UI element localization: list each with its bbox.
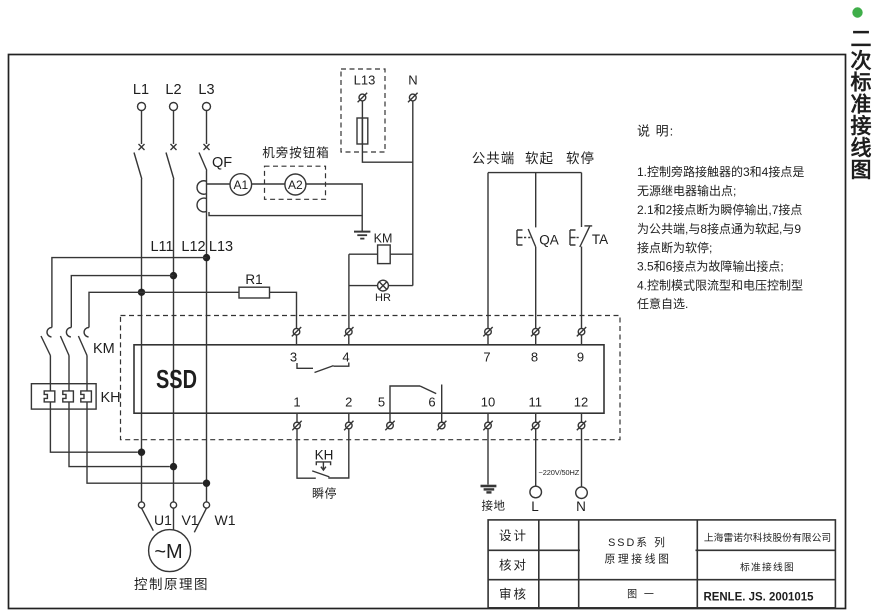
- svg-text:N: N: [408, 73, 417, 88]
- pushbutton KH actuator: [316, 462, 330, 470]
- svg-text:W1: W1: [215, 512, 236, 528]
- wire U1 to motor: [142, 508, 154, 531]
- wire terminal 11 to L: [535, 429, 537, 486]
- terminal circle L3: [203, 103, 211, 111]
- ground (terminal 10 earth): [481, 486, 497, 492]
- relay contact 3-4: [297, 363, 349, 373]
- wire terminal 10 to earth: [487, 429, 489, 485]
- terminal 4 slash circle: [344, 327, 353, 345]
- wire phase3 vertical: [206, 171, 208, 502]
- svg-text:U1: U1: [154, 512, 172, 528]
- svg-text:1: 1: [293, 395, 300, 410]
- svg-text:审核: 审核: [499, 587, 528, 602]
- wire terminal 12 to N: [581, 429, 583, 487]
- svg-text:任意自选.: 任意自选.: [637, 296, 688, 311]
- svg-text:L3: L3: [198, 82, 214, 98]
- fault contact 5-6: [390, 385, 442, 414]
- node junction motor line 3: [203, 480, 210, 487]
- svg-text:~220V/50HZ: ~220V/50HZ: [539, 468, 580, 477]
- wire L13 through fuse: [362, 101, 412, 162]
- motor terminal circle U1: [138, 502, 144, 508]
- svg-text:4: 4: [342, 350, 349, 365]
- svg-text:公共端: 公共端: [472, 151, 516, 166]
- KH heater element 2: [63, 391, 74, 402]
- wire contact2 to KH: [68, 356, 70, 392]
- pushbutton TA actuator: [570, 230, 580, 245]
- svg-text:9: 9: [577, 350, 584, 365]
- wire common to terminal 7: [487, 173, 489, 332]
- svg-text:A1: A1: [233, 178, 248, 192]
- svg-text:L: L: [531, 499, 539, 514]
- wire phase2 vertical: [173, 179, 175, 502]
- svg-text:KH: KH: [101, 390, 121, 406]
- L13 fuse dashed box: [341, 69, 385, 152]
- terminal 1 slash circle: [292, 413, 301, 430]
- svg-text:机旁按钮箱: 机旁按钮箱: [262, 145, 330, 160]
- contactor KM main contact 1: [41, 327, 52, 355]
- svg-text:L12: L12: [181, 239, 205, 255]
- breaker QF pole 1: [134, 111, 145, 180]
- svg-text:TA: TA: [592, 232, 608, 247]
- svg-text:图 一: 图 一: [627, 589, 656, 601]
- svg-text:12: 12: [574, 395, 588, 410]
- svg-text:接地: 接地: [482, 500, 506, 513]
- svg-text:HR: HR: [375, 292, 391, 304]
- svg-text:L1: L1: [133, 82, 149, 98]
- wire phase1 vertical: [141, 179, 143, 502]
- wire contact3 to KH: [86, 356, 88, 392]
- KH heater element 3: [81, 391, 92, 402]
- wire KH out 1 to motor line 1: [50, 402, 137, 452]
- svg-text:6: 6: [428, 395, 435, 410]
- svg-text:软起: 软起: [525, 151, 554, 166]
- svg-text:说 明:: 说 明:: [637, 124, 674, 139]
- wire KH out 3 to motor line 3: [87, 402, 203, 483]
- pushbutton KH (instant stop) wiring: [297, 429, 349, 478]
- terminal 8 slash circle: [531, 327, 540, 345]
- svg-text:11: 11: [528, 395, 542, 410]
- svg-text:瞬停: 瞬停: [312, 486, 337, 501]
- breaker QF pole 3: [199, 111, 210, 171]
- wire coil branch to terminal 4: [348, 254, 350, 328]
- svg-text:SSD: SSD: [156, 366, 197, 394]
- wire HR branch: [349, 285, 378, 287]
- wire A1 to A2: [252, 183, 285, 185]
- title block table: [488, 520, 835, 608]
- svg-text:7: 7: [483, 350, 490, 365]
- svg-text:QA: QA: [539, 233, 559, 248]
- wire QF coil to A1: [207, 183, 231, 185]
- wire control bus: [488, 172, 582, 174]
- wire soft-stop upper: [581, 173, 583, 227]
- terminal 2 slash circle: [344, 413, 353, 430]
- wire coil left: [349, 253, 378, 255]
- svg-text:标准接线图: 标准接线图: [740, 561, 795, 574]
- breaker QF pole 2: [166, 111, 177, 180]
- contactor KM main contact 2: [60, 327, 71, 355]
- svg-text:4.控制模式限流型和电压控制型: 4.控制模式限流型和电压控制型: [637, 278, 803, 292]
- motor terminal circle W1: [203, 502, 209, 508]
- resistor R1: [239, 287, 270, 298]
- svg-text:SSD系 列: SSD系 列: [608, 535, 667, 549]
- wire N vertical: [412, 101, 414, 286]
- terminal circle L1: [138, 103, 146, 111]
- wire L11 branch to KM contact 3 and R1: [89, 292, 239, 327]
- terminal L13 slash circle: [358, 93, 368, 103]
- svg-text:2: 2: [345, 395, 352, 410]
- svg-text:无源继电器输出点;: 无源继电器输出点;: [637, 183, 736, 198]
- svg-text:核对: 核对: [499, 559, 528, 573]
- svg-text:原理接线图: 原理接线图: [605, 552, 672, 566]
- node junction L13: [203, 254, 210, 261]
- svg-text:L11: L11: [150, 239, 173, 255]
- contactor coil KM: [378, 245, 391, 264]
- svg-text:RENLE. JS. 2001015: RENLE. JS. 2001015: [704, 590, 814, 604]
- terminal 12 slash circle: [577, 413, 586, 430]
- local button box dashed: [265, 166, 326, 199]
- wire V1 to motor: [173, 508, 175, 529]
- ammeter A2: [285, 174, 306, 195]
- wire soft-stop lower to terminal 9: [581, 247, 583, 332]
- svg-text:接点断为软停;: 接点断为软停;: [637, 240, 712, 255]
- svg-text:5: 5: [378, 395, 385, 410]
- svg-text:V1: V1: [181, 512, 198, 528]
- cover middle column merged rows: [580, 548, 696, 553]
- thermal overload relay KH box: [31, 384, 96, 409]
- svg-text:A2: A2: [288, 178, 303, 192]
- svg-text:N: N: [576, 499, 586, 514]
- wire HR to N: [388, 285, 412, 287]
- svg-text:L13: L13: [209, 239, 233, 255]
- svg-text:L13: L13: [354, 73, 376, 88]
- svg-text:R1: R1: [245, 272, 262, 287]
- terminal circle L: [530, 486, 542, 498]
- svg-text:KM: KM: [374, 232, 393, 246]
- ground (control return): [354, 216, 370, 239]
- wire soft-start upper: [535, 173, 537, 228]
- svg-text:1.控制旁路接触器的3和4接点是: 1.控制旁路接触器的3和4接点是: [637, 164, 804, 179]
- svg-text:2.1和2接点断为瞬停输出,7接点: 2.1和2接点断为瞬停输出,7接点: [637, 202, 802, 217]
- node junction L11: [138, 289, 145, 296]
- svg-text:软停: 软停: [566, 150, 595, 166]
- wire coil right to N: [390, 253, 413, 255]
- terminal 6 slash circle: [437, 413, 446, 430]
- fuse FU: [357, 118, 368, 144]
- svg-text:3: 3: [290, 350, 297, 365]
- terminal 9 slash circle: [577, 327, 586, 345]
- wire W1 to motor: [194, 508, 206, 532]
- svg-text:KM: KM: [93, 341, 115, 357]
- svg-text:KH: KH: [315, 448, 334, 463]
- wire contact1 to KH: [49, 356, 51, 392]
- wire soft-start lower to terminal 8: [535, 247, 537, 332]
- terminal 5 slash circle: [385, 413, 394, 430]
- terminal circle N: [576, 487, 588, 499]
- ammeter A1: [230, 174, 252, 196]
- svg-text:QF: QF: [212, 155, 232, 171]
- terminal 3 slash circle: [292, 327, 301, 345]
- motor terminal circle V1: [170, 502, 176, 508]
- svg-text:控制原理图: 控制原理图: [134, 577, 209, 592]
- QF trip coil arcs: [197, 181, 206, 212]
- svg-text:~M: ~M: [154, 541, 182, 563]
- svg-text:10: 10: [481, 395, 495, 410]
- terminal circle L2: [170, 103, 178, 111]
- SSD unit box: [134, 345, 604, 413]
- svg-text:为公共端,与8接点通为软起,与9: 为公共端,与8接点通为软起,与9: [637, 221, 801, 236]
- svg-text:二次标准接线图: 二次标准接线图: [851, 28, 872, 182]
- pushbutton QA actuator: [517, 230, 532, 245]
- wire A2 to ground branch: [209, 184, 362, 216]
- pushbutton QA blade: [528, 229, 536, 247]
- wire KH out 2 to motor line 2: [69, 402, 170, 467]
- contactor KM main contact 3: [78, 327, 89, 355]
- motor M: [149, 530, 191, 572]
- pushbutton TA blade: [580, 226, 592, 247]
- svg-text:上海雷诺尔科技股份有限公司: 上海雷诺尔科技股份有限公司: [704, 531, 831, 544]
- wire R1 to terminal 3: [270, 292, 297, 328]
- terminal 7 slash circle: [483, 327, 492, 345]
- green bullet: [852, 7, 862, 17]
- terminal N slash circle: [408, 93, 418, 103]
- node junction motor line 1: [138, 449, 145, 456]
- svg-text:3.5和6接点为故障输出接点;: 3.5和6接点为故障输出接点;: [637, 259, 784, 274]
- wire L12 branch to KM contact 2: [71, 276, 173, 328]
- indicator lamp HR: [378, 280, 389, 291]
- SSD dashed enclosure: [121, 316, 621, 440]
- wire L13 branch to KM contact 1: [52, 258, 207, 328]
- node junction L12: [170, 272, 177, 279]
- terminal 10 slash circle: [483, 413, 492, 430]
- KH heater element 1: [44, 391, 55, 402]
- svg-text:L2: L2: [165, 82, 181, 98]
- node junction motor line 2: [170, 463, 177, 470]
- svg-text:8: 8: [531, 350, 538, 365]
- terminal 11 slash circle: [531, 413, 540, 430]
- svg-text:设计: 设计: [499, 528, 528, 543]
